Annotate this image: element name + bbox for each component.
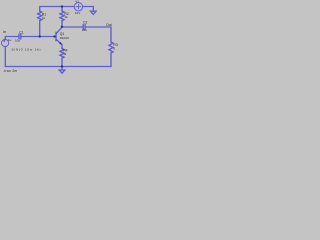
source V2 plus mark [3, 40, 5, 42]
wire out left segment [62, 26, 83, 28]
source V2 circle [2, 39, 9, 46]
transistor Q1 collector lead [56, 27, 62, 33]
resistor R1 [38, 11, 42, 21]
wire V2 bottom to rail [4, 47, 6, 67]
wire R4 bottom to rail [61, 58, 63, 66]
svg-text:1k: 1k [63, 52, 67, 56]
capacitor C1 plate left [18, 34, 20, 39]
svg-text:Out: Out [106, 23, 112, 27]
source V1 plus bar [78, 4, 80, 8]
junction node base pin [53, 35, 55, 37]
svg-text:V1: V1 [75, 0, 79, 3]
resistor R4 [60, 49, 64, 59]
capacitor C1 plate right [20, 34, 22, 39]
junction node bottom rail / ground [61, 65, 63, 67]
svg-text:1u: 1u [8, 38, 12, 42]
svg-text:1k: 1k [64, 15, 68, 19]
wire R1 bottom to base node [39, 21, 41, 37]
transistor Q1 base bar [55, 32, 57, 41]
junction node collector [61, 26, 63, 28]
resistor R2 [60, 11, 64, 21]
transistor Q1 emitter arrow [59, 42, 62, 45]
svg-text:SIN(0 10m 1k): SIN(0 10m 1k) [12, 48, 42, 52]
capacitor C2 plate left [82, 25, 84, 30]
wire R2 bottom to collector node [61, 21, 63, 27]
junction node base / R1 [39, 35, 41, 37]
capacitor C2 plate right [84, 25, 86, 30]
ground symbol bottom [59, 70, 65, 73]
source V1 circle [74, 3, 82, 11]
wire base input [5, 36, 19, 38]
svg-text:1k: 1k [42, 16, 46, 20]
ground symbol top right [91, 11, 97, 14]
svg-text:2N2222: 2N2222 [60, 36, 70, 40]
transistor Q1 emitter lead [56, 39, 62, 44]
svg-text:Q1: Q1 [60, 32, 65, 36]
svg-text:12V: 12V [75, 11, 80, 15]
svg-text:C1: C1 [19, 30, 23, 34]
resistor R3 [109, 42, 113, 53]
wire bottom rail [5, 66, 111, 68]
svg-text:10u: 10u [15, 38, 20, 42]
wire ground stub bottom [61, 67, 63, 70]
wire emitter to R4 [61, 45, 63, 49]
junction node top rail / R2 [61, 5, 63, 7]
wire C1 to base [21, 36, 55, 38]
wire R3 bottom to rail [110, 53, 112, 67]
wire top rail right of V1 [83, 7, 94, 12]
wire out right segment [85, 27, 111, 42]
wire top rail left [40, 7, 75, 12]
svg-text:10u: 10u [82, 28, 87, 32]
wire R2 top stub [61, 7, 63, 12]
svg-text:C2: C2 [83, 20, 87, 24]
source V1 lead through circle [76, 6, 81, 8]
svg-text:.tran 2m: .tran 2m [3, 69, 18, 73]
svg-text:In: In [3, 30, 6, 34]
wire V2 top stub [4, 37, 6, 40]
